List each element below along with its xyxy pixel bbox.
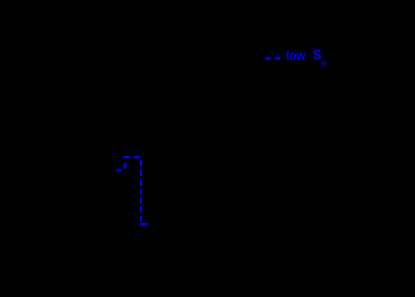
svg-text:low: low	[286, 49, 305, 63]
svg-text:o: o	[321, 59, 327, 69]
